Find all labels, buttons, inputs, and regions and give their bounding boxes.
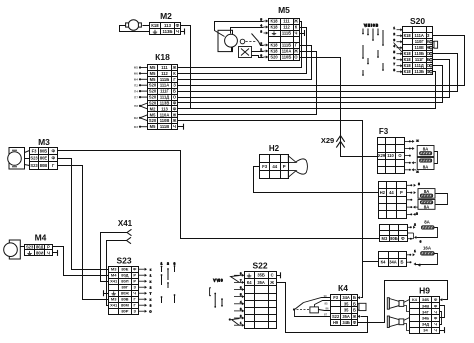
connector table S23 xyxy=(109,267,139,315)
fuse block F3-4 table xyxy=(379,252,407,267)
svg-text:8А: 8А xyxy=(423,147,429,152)
svg-text:S20: S20 xyxy=(149,95,157,100)
connector table M2 xyxy=(150,23,181,35)
svg-text:110: 110 xyxy=(387,153,394,158)
connector table M4 xyxy=(25,245,53,256)
svg-text:80Е: 80Е xyxy=(40,156,48,161)
relay K4 coil xyxy=(310,307,319,313)
svg-text:П4: П4 xyxy=(134,89,138,93)
svg-text:Б: Б xyxy=(353,301,356,306)
S23 switch position marks xyxy=(161,262,176,304)
svg-text:Ф: Ф xyxy=(133,267,137,272)
svg-text:М4: М4 xyxy=(35,233,47,243)
svg-text:З: З xyxy=(427,33,430,38)
svg-text:Х29: Х29 xyxy=(378,153,386,158)
wire net110 M5r7 to F3 xyxy=(300,58,379,157)
motor M4 xyxy=(4,243,18,257)
svg-text:S23: S23 xyxy=(26,244,34,249)
svg-text:80Ж: 80Ж xyxy=(121,291,129,296)
svg-text:К18: К18 xyxy=(404,63,412,68)
svg-text:К18: К18 xyxy=(404,69,412,74)
svg-text:F3: F3 xyxy=(262,164,268,169)
svg-text:F3: F3 xyxy=(379,127,389,136)
svg-text:80Д: 80Д xyxy=(36,244,44,249)
svg-text:85: 85 xyxy=(324,301,328,305)
svg-text:Ч: Ч xyxy=(434,322,437,327)
svg-text:111А: 111А xyxy=(160,83,169,88)
svg-text:86: 86 xyxy=(325,306,329,310)
fuse block F3-3 table xyxy=(380,225,408,242)
wire M4 row2 stub xyxy=(53,252,58,254)
svg-text:35Б: 35Б xyxy=(257,273,265,278)
svg-text:110Б: 110Б xyxy=(414,51,424,56)
svg-text:Ф: Ф xyxy=(51,156,55,161)
wire H9-1 to row3 xyxy=(404,306,410,312)
wire M3 box to row3 xyxy=(25,165,30,166)
svg-text:К4: К4 xyxy=(381,260,386,265)
S22 rows 7-8 jumper xyxy=(232,319,240,326)
wire S22 row1 stub xyxy=(277,275,281,277)
connector table S22 xyxy=(245,272,277,329)
fuse F3-2b 8A xyxy=(418,200,435,210)
svg-text:113Б: 113Б xyxy=(162,29,172,34)
svg-text:Р: Р xyxy=(133,279,136,284)
svg-text:80Б: 80Б xyxy=(40,148,48,153)
svg-text:35: 35 xyxy=(344,308,349,313)
connector symbol X29 xyxy=(336,136,344,148)
svg-text:S20: S20 xyxy=(410,16,425,26)
svg-text:34Б: 34Б xyxy=(422,297,429,302)
K18 left wire leads xyxy=(139,66,148,127)
svg-text:34Г: 34Г xyxy=(422,309,429,314)
horn symbol H9-1 xyxy=(387,298,404,310)
fuse F3-1b 8A xyxy=(417,158,434,170)
wire net34Б K4r5 to H9r1 xyxy=(358,281,448,323)
F3-2 contact stubs xyxy=(406,182,420,216)
svg-text:111А: 111А xyxy=(415,33,424,38)
fuse F3-2a 8A xyxy=(418,189,435,199)
svg-text:Ч: Ч xyxy=(173,124,176,129)
svg-text:К18: К18 xyxy=(270,19,278,24)
svg-text:16А: 16А xyxy=(423,246,432,251)
svg-text:Ф: Ф xyxy=(51,148,55,153)
H9 bracket rows2-4 xyxy=(440,306,445,318)
svg-text:ж: ж xyxy=(416,170,418,174)
S23 switch contact arrows xyxy=(138,267,152,313)
svg-text:Б: Б xyxy=(353,308,356,313)
svg-text:Х41: Х41 xyxy=(110,279,118,284)
svg-text:113В: 113В xyxy=(160,101,170,106)
svg-text:35: 35 xyxy=(344,301,349,306)
svg-text:М3: М3 xyxy=(38,137,50,147)
wire net111А K18r4-S20r2 xyxy=(178,36,465,86)
K18 left lead labels xyxy=(134,66,139,129)
svg-text:44: 44 xyxy=(389,190,394,195)
S20 switch lever xyxy=(394,43,403,53)
svg-text:V VI 0: V VI 0 xyxy=(213,279,222,283)
svg-text:34В: 34В xyxy=(422,303,429,308)
M3 motor frame box xyxy=(9,148,25,170)
wire H9-2 to row6 xyxy=(404,324,410,331)
svg-text:34Б: 34Б xyxy=(342,320,350,325)
svg-text:ж: ж xyxy=(416,139,418,143)
wire net112 K18r2-M5r2 xyxy=(178,28,307,74)
K4 contact blade xyxy=(295,303,304,310)
connector table S20 xyxy=(403,27,433,75)
wire net34А F3-4 to K4 vertical branch xyxy=(363,261,379,263)
horn symbol H2 xyxy=(288,156,307,177)
M5 motor frame box xyxy=(218,30,233,51)
svg-text:Б: Б xyxy=(173,89,176,94)
svg-text:S22: S22 xyxy=(252,261,267,271)
svg-text:Б: Б xyxy=(353,295,356,300)
svg-text:К4: К4 xyxy=(247,280,252,285)
svg-text:80Е: 80Е xyxy=(121,267,128,272)
svg-text:Ж: Ж xyxy=(293,19,298,24)
svg-text:111: 111 xyxy=(283,19,290,24)
svg-text:М3: М3 xyxy=(382,236,388,241)
svg-text:80Б: 80Б xyxy=(390,236,398,241)
svg-text:34А: 34А xyxy=(342,295,350,300)
svg-text:М5: М5 xyxy=(150,112,156,117)
svg-text:111Г: 111Г xyxy=(160,89,169,94)
svg-text:110Г: 110Г xyxy=(415,39,425,44)
horn symbol H9-2 xyxy=(387,316,404,328)
wire M3 box to row1 xyxy=(25,151,30,153)
svg-text:Ч: Ч xyxy=(295,31,298,36)
S22 switch position marks xyxy=(210,279,223,308)
svg-text:К18: К18 xyxy=(155,52,170,62)
svg-text:111Г: 111Г xyxy=(415,57,424,62)
svg-text:К18: К18 xyxy=(404,33,412,38)
wire net80Е M3r2 to S23r1 xyxy=(58,159,109,270)
svg-text:Ж: Ж xyxy=(172,118,177,123)
wire net113Б K18r8-S20r8 xyxy=(178,72,436,109)
svg-text:Р: Р xyxy=(47,244,50,249)
wire net80Б M3r1 to F3 block3 xyxy=(58,151,380,239)
svg-text:S20: S20 xyxy=(149,118,157,123)
svg-text:Ч: Ч xyxy=(133,291,136,296)
wire net111 K18r1-M5r1 xyxy=(178,22,302,68)
svg-text:К18: К18 xyxy=(404,51,412,56)
svg-text:П7: П7 xyxy=(134,95,138,99)
wire M4 box to row1 xyxy=(21,246,25,248)
motor M2 xyxy=(126,20,142,31)
svg-text:К18: К18 xyxy=(270,25,278,30)
svg-text:112: 112 xyxy=(283,25,290,30)
K4 pin86 wire xyxy=(319,310,331,311)
svg-text:80И: 80И xyxy=(36,250,44,255)
wire F3-3 fuse return xyxy=(417,228,438,238)
svg-text:Р: Р xyxy=(133,273,136,278)
svg-text:Н9: Н9 xyxy=(333,320,339,325)
M3 commutator marks xyxy=(12,150,17,167)
svg-text:М4: М4 xyxy=(134,78,139,82)
svg-text:М2: М2 xyxy=(160,11,172,21)
wire net80В M3r3 to S23r6 xyxy=(58,166,109,300)
svg-text:Ф: Ф xyxy=(401,236,405,241)
svg-text:112: 112 xyxy=(161,71,168,76)
svg-text:Ф: Ф xyxy=(353,320,357,325)
svg-text:Ф: Ф xyxy=(434,315,438,320)
svg-text:35А: 35А xyxy=(342,314,350,319)
svg-text:Б: Б xyxy=(401,260,404,265)
M5 pin arrows and numbers xyxy=(260,17,268,58)
M5 thermal contact circle xyxy=(240,39,245,44)
svg-text:К4: К4 xyxy=(412,297,417,302)
junction arrow into K4 row1 xyxy=(357,296,360,299)
F3-3 contacts and bridge xyxy=(407,223,422,244)
wire net113В K18r7-S20r7 xyxy=(178,66,443,103)
wire M5 internal top xyxy=(215,22,264,37)
svg-text:М3: М3 xyxy=(111,267,117,272)
svg-text:111Б: 111Б xyxy=(282,43,291,48)
K4 rows2-3 resistor box xyxy=(357,303,366,310)
S20 switch position marks xyxy=(362,24,384,76)
wire F3-2 fuse link xyxy=(436,194,448,205)
wire M2 motor to pin 1 xyxy=(143,25,150,27)
svg-text:М5: М5 xyxy=(150,124,156,129)
svg-text:34Б: 34Б xyxy=(422,315,429,320)
svg-text:М5: М5 xyxy=(150,71,156,76)
wire F3-4 fuse return xyxy=(416,254,438,265)
wire M5 heater to row7 xyxy=(252,56,264,58)
svg-text:Н9: Н9 xyxy=(419,286,430,296)
connector symbol X41 pin2 xyxy=(127,237,132,243)
connector table H2 xyxy=(260,155,289,179)
wire net80Л X41 to S23r3 xyxy=(101,233,128,282)
svg-text:Ж: Ж xyxy=(172,112,177,117)
svg-text:80Д: 80Д xyxy=(121,273,128,278)
M4 motor frame box xyxy=(9,240,20,259)
svg-text:Х41: Х41 xyxy=(118,219,133,228)
svg-text:80В: 80В xyxy=(40,163,48,168)
svg-text:Ф: Ф xyxy=(173,106,177,111)
svg-text:113: 113 xyxy=(164,23,172,28)
svg-text:S23: S23 xyxy=(30,163,38,168)
wire M5 dashdot link xyxy=(246,41,257,43)
fuse F3-1a 8A xyxy=(417,146,434,157)
F3-4 contacts xyxy=(406,249,421,267)
S22 switch lever xyxy=(231,276,240,283)
svg-text:111Б: 111Б xyxy=(282,31,291,36)
S22 jumper node xyxy=(229,318,231,320)
svg-text:Х41: Х41 xyxy=(110,303,118,308)
svg-text:80Р: 80Р xyxy=(121,309,128,314)
svg-text:К4: К4 xyxy=(338,283,348,293)
svg-text:S23: S23 xyxy=(30,156,38,161)
svg-text:К18: К18 xyxy=(404,57,412,62)
svg-text:87: 87 xyxy=(324,313,328,317)
svg-text:34А: 34А xyxy=(389,260,397,265)
wire M5 heater to row6 xyxy=(252,51,264,53)
svg-text:8А: 8А xyxy=(424,204,430,209)
svg-text:80Л: 80Л xyxy=(121,279,128,284)
wire M2 motor to pin 2 xyxy=(120,26,150,32)
wire M2 pin2 stub xyxy=(181,31,185,33)
svg-text:Ф: Ф xyxy=(173,101,177,106)
svg-text:34Д: 34Д xyxy=(422,322,429,327)
svg-text:Ч: Ч xyxy=(434,309,437,314)
svg-text:З: З xyxy=(173,83,176,88)
wire net111Г K18r5-S20r5 xyxy=(178,54,458,92)
svg-text:F3: F3 xyxy=(333,295,339,300)
S20 contact rings rows 3-8 xyxy=(430,40,433,72)
svg-text:8А: 8А xyxy=(423,164,429,169)
wire H9-2 to row4 xyxy=(404,318,410,321)
svg-text:S20: S20 xyxy=(270,55,278,60)
svg-text:М6: М6 xyxy=(134,72,139,76)
wire S23 row5 stub xyxy=(104,293,109,295)
svg-text:110А: 110А xyxy=(282,49,292,54)
svg-text:Х29: Х29 xyxy=(321,136,334,145)
svg-text:8А: 8А xyxy=(424,189,430,194)
svg-text:34: 34 xyxy=(423,328,428,333)
svg-text:Ж: Ж xyxy=(172,65,177,70)
connector table M3 xyxy=(30,148,58,170)
K4 dashdot xyxy=(297,309,310,311)
svg-text:М3: М3 xyxy=(111,297,117,302)
wire M3 box to row2 xyxy=(25,158,30,160)
svg-text:П2: П2 xyxy=(134,83,138,87)
svg-text:80Г: 80Г xyxy=(122,285,129,290)
svg-text:111В: 111В xyxy=(160,124,169,129)
svg-text:Ф: Ф xyxy=(176,23,180,28)
svg-text:VI II I 0 В: VI II I 0 В xyxy=(364,24,379,28)
svg-text:113Б: 113Б xyxy=(414,69,424,74)
wire net80Д M4r1 to S23r2 xyxy=(53,247,109,276)
wire net80М X41 to S23r7 xyxy=(107,241,127,306)
connector table K18 xyxy=(148,65,178,130)
motor M5 xyxy=(225,34,238,47)
svg-text:110В: 110В xyxy=(160,118,170,123)
svg-text:Ж: Ж xyxy=(269,280,274,285)
svg-text:111Д: 111Д xyxy=(415,63,424,68)
svg-text:К18: К18 xyxy=(270,49,278,54)
wire K18 row11 stub xyxy=(178,126,184,128)
svg-text:Н2: Н2 xyxy=(269,144,280,153)
wire M5 row3 stub xyxy=(300,33,305,35)
wire net111Д K18r6-S20r6 xyxy=(178,60,450,98)
svg-text:М5: М5 xyxy=(150,77,156,82)
wire H9-1 to row1 xyxy=(404,300,410,303)
svg-text:111: 111 xyxy=(161,65,168,70)
svg-text:111Д: 111Д xyxy=(160,95,169,100)
svg-text:Н2: Н2 xyxy=(380,190,386,195)
svg-text:Ч: Ч xyxy=(434,328,437,333)
svg-text:S23: S23 xyxy=(116,256,131,266)
svg-text:35А: 35А xyxy=(257,280,265,285)
fuse block F3-2 table xyxy=(379,182,407,219)
svg-text:111Б: 111Б xyxy=(160,77,169,82)
wire net35А S22r2 to K4r4 xyxy=(277,283,368,333)
svg-text:М5: М5 xyxy=(134,66,139,70)
svg-text:М3: М3 xyxy=(134,125,139,129)
wire net110А K18r9-M5r6 xyxy=(178,52,317,115)
svg-text:S20: S20 xyxy=(149,101,157,106)
wire M5 motor bottom brush xyxy=(231,48,233,52)
connector symbol X41 pin1 xyxy=(127,229,132,235)
svg-text:Р: Р xyxy=(400,190,403,195)
svg-text:М2: М2 xyxy=(134,116,139,120)
svg-text:Р: Р xyxy=(283,164,286,169)
svg-text:110Б: 110Б xyxy=(282,55,292,60)
svg-text:S20: S20 xyxy=(149,89,157,94)
connector table H9 xyxy=(410,297,440,334)
wire M5 switch blade xyxy=(252,34,259,42)
svg-text:М2: М2 xyxy=(150,106,156,111)
S22 pin numbers and stubs xyxy=(234,271,244,326)
svg-text:Т: Т xyxy=(150,291,152,295)
svg-text:К18: К18 xyxy=(151,23,159,28)
connector table M5 xyxy=(269,19,300,61)
fuse block F3-1 table xyxy=(378,138,405,174)
motor M3 xyxy=(8,152,22,166)
svg-text:110Е: 110Е xyxy=(415,45,425,50)
svg-text:М5: М5 xyxy=(278,5,290,15)
svg-text:113: 113 xyxy=(161,106,168,111)
svg-text:Ч: Ч xyxy=(47,250,50,255)
svg-text:110А: 110А xyxy=(160,112,170,117)
svg-text:М4: М4 xyxy=(111,273,117,278)
K4 pin30 wire xyxy=(304,298,331,303)
S20 resistor bracket rows 3-4 xyxy=(433,41,438,48)
svg-text:Ж: Ж xyxy=(352,314,357,319)
wire F3-1 fuse link xyxy=(435,152,438,164)
arrow into H9 row1 xyxy=(440,298,443,301)
svg-text:80М: 80М xyxy=(121,303,129,308)
wire M2 pin1 to K18 row8 xyxy=(178,26,191,109)
svg-text:Ч: Ч xyxy=(176,29,179,34)
svg-text:30: 30 xyxy=(323,294,327,298)
svg-text:8А: 8А xyxy=(424,219,430,224)
svg-text:F3: F3 xyxy=(32,148,38,153)
svg-text:S22: S22 xyxy=(332,314,340,319)
K4 pin85 wire xyxy=(315,301,331,307)
wire net44 H2 to F3 block2 xyxy=(254,167,379,193)
svg-text:П8: П8 xyxy=(134,104,138,108)
wire H9 row6 stub xyxy=(440,330,445,332)
S20 pin arrows and numbers xyxy=(393,26,402,73)
svg-text:Ж: Ж xyxy=(293,49,298,54)
wire M5 blade to row5 xyxy=(259,42,264,46)
relay table K4 xyxy=(331,295,358,326)
svg-text:С: С xyxy=(271,273,274,278)
K4 pin87 wire xyxy=(295,310,331,317)
svg-text:80В: 80В xyxy=(121,297,128,302)
M5 heater box with X xyxy=(239,47,252,58)
svg-text:К18: К18 xyxy=(270,43,278,48)
svg-text:М5: М5 xyxy=(150,65,156,70)
svg-text:Ф: Ф xyxy=(434,303,438,308)
wire net110В K18r10 down to K4 xyxy=(178,121,363,298)
arrow into K4 row4 xyxy=(357,315,360,318)
F3-1 contact stubs xyxy=(405,139,419,174)
wire M5 internal second xyxy=(231,28,264,34)
svg-text:S20: S20 xyxy=(149,83,157,88)
svg-text:Ф: Ф xyxy=(434,297,438,302)
svg-text:Б: Б xyxy=(427,57,430,62)
svg-text:44: 44 xyxy=(272,164,277,169)
H9 bracket rows3-5 xyxy=(440,312,442,325)
wire net111Б K18r3-M5r5 xyxy=(178,46,312,80)
